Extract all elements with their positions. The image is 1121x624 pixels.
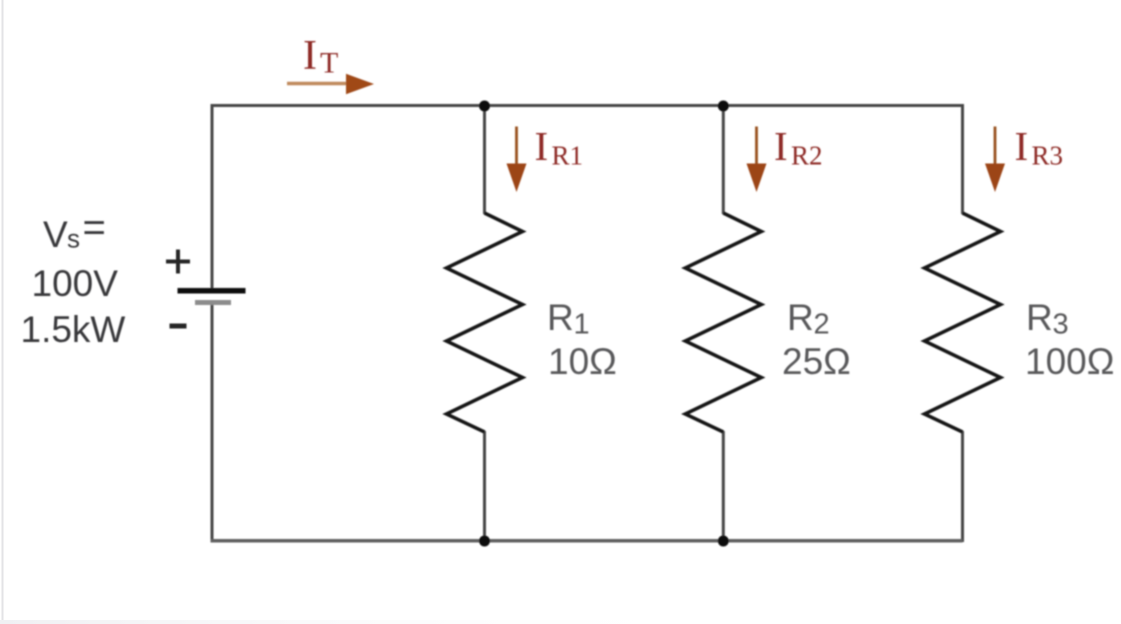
- svg-text:I: I: [303, 33, 317, 79]
- svg-text:1: 1: [574, 309, 590, 341]
- svg-text:R1: R1: [552, 141, 584, 171]
- svg-text:I: I: [774, 123, 788, 169]
- svg-text:V: V: [43, 214, 68, 255]
- svg-text:1.5kW: 1.5kW: [21, 309, 126, 350]
- svg-text:s: s: [67, 224, 80, 254]
- svg-text:I: I: [1015, 123, 1029, 169]
- svg-text:100Ω: 100Ω: [1025, 341, 1114, 382]
- svg-text:T: T: [320, 47, 338, 80]
- svg-text:R3: R3: [1032, 141, 1064, 171]
- svg-text:2: 2: [814, 309, 830, 341]
- svg-text:R2: R2: [791, 141, 823, 171]
- svg-text:R: R: [787, 297, 814, 338]
- svg-text:25Ω: 25Ω: [782, 341, 851, 382]
- svg-text:=: =: [83, 206, 106, 250]
- svg-text:R: R: [547, 297, 574, 338]
- svg-text:I: I: [535, 123, 549, 169]
- svg-text:R: R: [1026, 297, 1053, 338]
- svg-text:3: 3: [1053, 309, 1069, 341]
- svg-text:100V: 100V: [32, 263, 119, 304]
- svg-text:10Ω: 10Ω: [548, 341, 617, 382]
